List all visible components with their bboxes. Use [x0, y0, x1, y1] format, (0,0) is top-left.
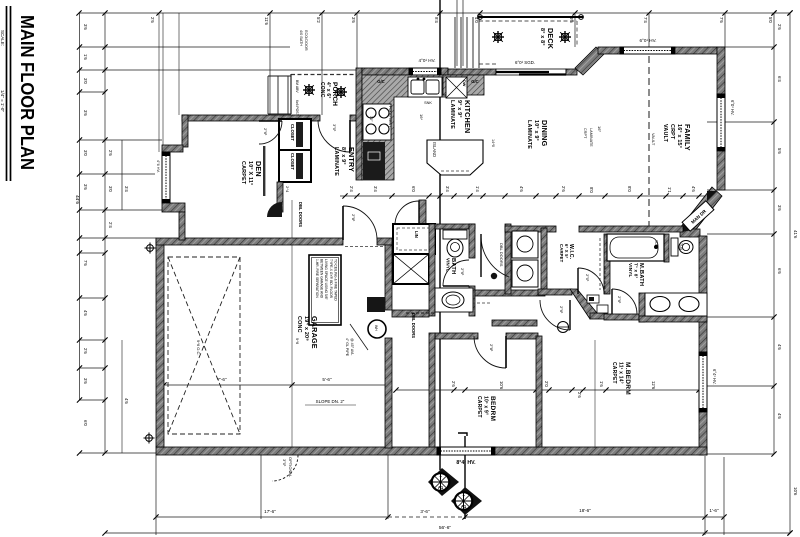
family top wall east	[675, 47, 717, 54]
kitchen-hall wall stub	[419, 200, 426, 225]
m.bedrm north wall east	[639, 316, 707, 322]
svg-text:3'-6": 3'-6"	[420, 509, 430, 514]
svg-text:1/4" = 1'-0": 1/4" = 1'-0"	[0, 90, 5, 112]
svg-text:17'-6": 17'-6"	[264, 509, 276, 514]
hall cased opening dashes	[604, 266, 606, 296]
bedroom-m.bedroom divider	[536, 336, 542, 447]
svg-text:A1: A1	[461, 504, 467, 509]
fire separation note box	[309, 255, 341, 325]
svg-text:SNK: SNK	[424, 101, 432, 105]
bedroom door swing	[474, 336, 506, 368]
svg-text:44’6: 44’6	[74, 195, 80, 204]
svg-text:18'-6": 18'-6"	[579, 508, 591, 513]
svg-text:4’6: 4’6	[691, 186, 696, 192]
svg-text:6°0¹ SGD.: 6°0¹ SGD.	[515, 60, 535, 65]
svg-text:TYPE-X GYP. BD. FLOOR: TYPE-X GYP. BD. FLOOR	[329, 259, 333, 299]
svg-text:2°8¹: 2°8¹	[351, 214, 356, 222]
svg-text:2°6¹: 2°6¹	[617, 296, 622, 304]
bath door swing	[443, 260, 469, 286]
family south wall	[579, 226, 683, 232]
sliding glass door	[496, 69, 566, 75]
water heater	[368, 320, 386, 338]
svg-text:8’0: 8’0	[627, 186, 632, 192]
svg-text:TUB: TUB	[654, 240, 658, 248]
svg-text:5’6: 5’6	[777, 148, 782, 154]
svg-text:1’1: 1’1	[667, 187, 672, 193]
svg-text:8’0: 8’0	[589, 187, 594, 193]
svg-text:MAIN FLOOR PLAN: MAIN FLOOR PLAN	[17, 15, 37, 170]
svg-text:3’6: 3’6	[83, 184, 88, 190]
closet block	[279, 119, 311, 182]
diagonal step wall	[575, 47, 604, 75]
bottom wall east	[495, 447, 707, 455]
svg-text:7’6: 7’6	[719, 17, 724, 23]
svg-text:3’0: 3’0	[108, 186, 113, 192]
svg-text:2’6: 2’6	[83, 348, 88, 354]
laundry door swing	[481, 235, 509, 277]
svg-text:3’0: 3’0	[83, 78, 88, 84]
svg-text:5’0: 5’0	[768, 17, 773, 23]
m.bedrm north wall stub	[590, 313, 607, 319]
svg-text:2’6: 2’6	[108, 150, 113, 156]
svg-text:2°6¹: 2°6¹	[460, 268, 465, 276]
svg-text:16°: 16°	[597, 126, 602, 132]
porch edge lines	[291, 74, 356, 76]
right dimension column	[773, 13, 775, 454]
bottom extension lines	[155, 455, 157, 535]
svg-text:3’0: 3’0	[83, 150, 88, 156]
top dimension line	[79, 12, 790, 14]
svg-text:4°6 HV.: 4°6 HV.	[156, 160, 160, 173]
bedroom north wall east	[506, 333, 538, 339]
garage truss X	[168, 257, 240, 434]
kitchen top wall jamb	[441, 68, 448, 75]
svg-text:A1: A1	[438, 485, 444, 490]
washer dryer	[512, 231, 538, 258]
family right window 6-0 HV	[717, 94, 725, 151]
deck post 2	[559, 31, 571, 43]
bath east wall lower	[469, 286, 475, 316]
svg-text:1-HR. FIRE SEPARATION: 1-HR. FIRE SEPARATION	[315, 259, 319, 298]
m.bedrm north wall west	[604, 314, 639, 320]
svg-text:6’0: 6’0	[83, 420, 88, 426]
bottom dimension lines	[156, 516, 388, 518]
svg-text:BETWEEN GARAGE AND: BETWEEN GARAGE AND	[320, 259, 324, 299]
bedroom west wall	[429, 333, 435, 447]
left dimension column	[79, 13, 81, 400]
dbl door dash hall	[406, 312, 436, 314]
deck dashed	[479, 20, 577, 22]
bedroom north wall west	[435, 333, 478, 339]
svg-text:6°0¹ HV.: 6°0¹ HV.	[640, 38, 657, 43]
svg-text:3’4: 3’4	[124, 186, 129, 192]
svg-text:6x6 POST: 6x6 POST	[295, 100, 299, 116]
svg-text:OPTIONAL: OPTIONAL	[288, 457, 293, 478]
svg-text:2’6: 2’6	[150, 17, 155, 23]
svg-text:LAMINATE: LAMINATE	[589, 128, 593, 147]
svg-text:SCALE:: SCALE:	[0, 30, 5, 46]
svg-text:10’6: 10’6	[499, 381, 504, 390]
den west wall upper	[182, 115, 188, 147]
svg-text:16⁴: 16⁴	[419, 114, 424, 120]
dishwasher box with X	[446, 77, 467, 98]
entry-kitchen west wall	[356, 68, 362, 180]
svg-text:4’6: 4’6	[777, 413, 782, 419]
vault ridge dashed	[648, 56, 650, 226]
cooktop	[363, 104, 391, 140]
svg-text:TOIL: TOIL	[679, 243, 683, 251]
smoke detector circle	[558, 322, 569, 333]
den east wall	[263, 146, 265, 196]
svg-text:3’6: 3’6	[777, 205, 782, 211]
svg-text:7'-6": 7'-6"	[217, 377, 227, 382]
svg-text:DBL DOORS: DBL DOORS	[499, 243, 504, 267]
hose bib upper	[145, 243, 156, 254]
garage left wall	[156, 239, 164, 447]
family right wall upper	[717, 47, 725, 94]
title rule double line	[6, 6, 8, 181]
deck edge	[478, 16, 583, 18]
section cut line A	[439, 0, 441, 470]
svg-text:2°6¹: 2°6¹	[559, 306, 564, 314]
bath vanity	[435, 288, 473, 312]
slope arrow line	[350, 324, 368, 350]
den east wall	[277, 182, 283, 212]
svg-text:4/0 BATH: 4/0 BATH	[299, 30, 303, 46]
garage east wall upper	[385, 245, 392, 310]
kitchen sink	[408, 77, 442, 97]
svg-text:56'-6": 56'-6"	[439, 525, 452, 531]
svg-text:HOOD VENT: HOOD VENT	[388, 106, 392, 128]
hall dimension line	[340, 195, 706, 197]
m.bath tub	[607, 234, 664, 261]
family top wall west	[598, 47, 620, 54]
laundry-wic divider	[541, 228, 547, 294]
svg-text:3°0¹: 3°0¹	[282, 459, 287, 467]
deck stairs	[454, 17, 456, 68]
kitchen top wall	[362, 68, 409, 75]
top extension lines	[158, 13, 160, 152]
optional garage door swing	[272, 455, 298, 481]
svg-text:DBL DOORS: DBL DOORS	[298, 202, 303, 227]
hall south wall	[392, 310, 429, 317]
svg-text:G/C: G/C	[471, 79, 478, 84]
front door jamb wall	[350, 115, 362, 121]
right wall bottom	[699, 412, 707, 455]
bath north wall	[435, 224, 475, 229]
den dbl door dark wedge	[267, 202, 282, 217]
svg-text:7’6: 7’6	[83, 260, 88, 266]
svg-text:14⁴0: 14⁴0	[491, 139, 495, 147]
right wall m.bath	[699, 236, 707, 352]
counter right of sink	[443, 75, 484, 95]
kitchen-hall door swing	[395, 201, 419, 225]
den window	[162, 152, 170, 203]
family top window 6-0 HV	[620, 47, 675, 54]
svg-text:5'-6": 5'-6"	[322, 377, 332, 382]
svg-text:30°: 30°	[369, 116, 373, 122]
tub-toilet divider	[664, 234, 669, 262]
hall light symbol	[491, 273, 497, 279]
svg-text:3°0¹: 3°0¹	[332, 124, 337, 132]
deck stair extension pair	[456, 0, 458, 66]
svg-text:BM ABV: BM ABV	[295, 80, 299, 93]
bath west wall	[429, 224, 435, 316]
svg-text:4’6: 4’6	[124, 398, 129, 404]
deck side wall	[566, 69, 577, 75]
entry hall door swing	[343, 206, 377, 240]
m.bedroom door swing	[612, 289, 637, 314]
svg-text:3’6: 3’6	[83, 110, 88, 116]
hall shelf boxes	[587, 295, 599, 303]
bedroom window 8-4 HV	[437, 447, 495, 455]
svg-text:7’4: 7’4	[643, 17, 648, 23]
svg-text:8’4: 8’4	[434, 17, 439, 23]
svg-text:2’4: 2’4	[349, 186, 354, 192]
porch post 1	[303, 84, 315, 96]
deck post 1	[492, 31, 504, 43]
dark base cabinet	[363, 142, 385, 180]
svg-text:CRPT: CRPT	[583, 128, 587, 139]
family right wall lower	[717, 151, 725, 190]
corridor dashes	[442, 302, 490, 304]
svg-text:10’6: 10’6	[793, 487, 798, 496]
garage east wall lower	[385, 338, 392, 448]
hall-laundry south wall	[475, 290, 545, 296]
svg-text:2’6: 2’6	[777, 24, 782, 30]
bath east wall upper	[469, 224, 475, 258]
svg-text:6’4: 6’4	[777, 76, 782, 82]
den-garage link wall	[179, 212, 185, 240]
svg-text:2’6: 2’6	[561, 186, 566, 192]
laundry west wall	[505, 224, 511, 294]
svg-text:1’6: 1’6	[599, 381, 604, 387]
den door swing	[259, 121, 282, 144]
svg-text:DW: DW	[462, 80, 466, 87]
svg-text:3’4: 3’4	[445, 186, 450, 192]
svg-text:6°4¹ HV.: 6°4¹ HV.	[712, 369, 717, 385]
svg-text:TO CEILING & FIRE TAPED: TO CEILING & FIRE TAPED	[333, 259, 337, 301]
section marker B	[451, 487, 482, 515]
m.bedrm window 6-0 HV	[699, 352, 707, 412]
stair/chase box with X	[393, 254, 429, 284]
den west step	[162, 145, 183, 152]
svg-text:ISLAND: ISLAND	[432, 142, 437, 157]
island	[427, 140, 483, 175]
svg-text:6’6: 6’6	[777, 268, 782, 274]
man door angled	[682, 201, 714, 231]
svg-text:1’4: 1’4	[475, 186, 480, 192]
svg-text:4’6: 4’6	[777, 344, 782, 350]
svg-text:12’6: 12’6	[651, 381, 656, 390]
svg-text:3’6: 3’6	[83, 24, 88, 30]
vanity west wall	[639, 293, 645, 322]
wic door swing	[578, 268, 604, 294]
svg-text:41’6: 41’6	[793, 230, 798, 239]
garage top wall jamb	[377, 238, 392, 245]
bath toilet	[443, 230, 467, 239]
svg-text:2’4: 2’4	[108, 222, 113, 228]
dashed inner face garage wall	[345, 246, 391, 248]
svg-text:@ 45° AVL: @ 45° AVL	[350, 338, 354, 355]
svg-text:2’0: 2’0	[544, 381, 549, 387]
furnace	[367, 297, 385, 312]
svg-text:2’6: 2’6	[451, 381, 456, 387]
garage top wall	[156, 238, 343, 245]
svg-text:4’6: 4’6	[519, 186, 524, 192]
porch steps	[267, 76, 269, 114]
svg-text:SLOPE DN. 2": SLOPE DN. 2"	[316, 399, 345, 404]
svg-text:5’2: 5’2	[316, 17, 321, 23]
svg-text:4’6: 4’6	[83, 310, 88, 316]
wic east wall	[604, 234, 610, 294]
svg-text:6°0¹ HV.: 6°0¹ HV.	[730, 100, 735, 116]
section marker A	[428, 468, 459, 496]
linen closet	[393, 224, 435, 254]
svg-text:6’0: 6’0	[411, 186, 416, 192]
svg-text:11’6: 11’6	[264, 17, 269, 26]
kitchen counter L	[362, 75, 447, 180]
svg-text:2°6¹: 2°6¹	[263, 128, 268, 136]
svg-text:3’4: 3’4	[373, 186, 378, 192]
svg-text:2°8¹: 2°8¹	[489, 344, 494, 352]
svg-text:CLOSET: CLOSET	[290, 153, 295, 170]
svg-text:3’6: 3’6	[351, 17, 356, 23]
corridor south wall	[492, 320, 537, 326]
svg-text:ECO/DOOR: ECO/DOOR	[304, 30, 308, 51]
m.bath double vanity	[645, 293, 707, 316]
svg-text:DBL DOORS: DBL DOORS	[411, 313, 416, 338]
svg-text:WH: WH	[374, 325, 378, 331]
nook top wall	[448, 69, 496, 75]
svg-text:9⁴6 O.C.: 9⁴6 O.C.	[196, 340, 201, 356]
svg-text:LIN: LIN	[414, 231, 419, 238]
den west jog lower	[162, 203, 185, 212]
svg-text:G/C: G/C	[377, 79, 384, 84]
svg-text:1’6: 1’6	[83, 54, 88, 60]
wic rod dashed	[546, 232, 548, 288]
svg-text:3’6: 3’6	[83, 378, 88, 384]
front door swing	[318, 120, 350, 152]
svg-text:2⁴4: 2⁴4	[285, 186, 290, 193]
svg-text:8°4¹ HV.: 8°4¹ HV.	[456, 460, 476, 466]
svg-text:2’6: 2’6	[577, 392, 582, 398]
svg-text:1'-6": 1'-6"	[709, 508, 719, 513]
hall door swing	[540, 300, 570, 330]
m.bath toilet	[671, 238, 678, 256]
svg-text:2°0¹: 2°0¹	[585, 274, 590, 282]
angled wall end wedges	[707, 191, 717, 201]
svg-text:9⁴6: 9⁴6	[295, 338, 300, 345]
svg-text:4" GL PIPE: 4" GL PIPE	[345, 338, 349, 357]
bedroom dimension line	[396, 389, 699, 391]
bath ne stub wall	[680, 229, 700, 237]
svg-text:CLOSET: CLOSET	[290, 124, 295, 141]
kitchen window 4-0 HV	[409, 68, 441, 75]
svg-text:VAULT: VAULT	[651, 133, 656, 146]
bottom wall west	[156, 447, 437, 455]
porch post 2	[335, 86, 347, 98]
garage dimension line	[164, 384, 388, 386]
den top wall	[182, 115, 320, 121]
laundry north wall	[505, 226, 556, 232]
m.bedrm cased opening dashes	[611, 314, 639, 316]
svg-text:LIVING SPACE USING 5/8": LIVING SPACE USING 5/8"	[324, 259, 328, 301]
angled man-door wall	[680, 187, 722, 237]
section cut line B	[464, 436, 466, 519]
svg-text:4°0¹ HV.: 4°0¹ HV.	[419, 58, 436, 63]
wic south wall	[538, 289, 572, 295]
m.suite angled wall	[570, 289, 597, 319]
hose bib lower	[144, 433, 155, 444]
